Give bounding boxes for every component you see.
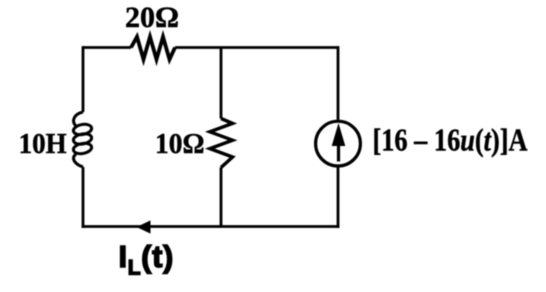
svg-text:[16 – 16u(t)]A: [16 – 16u(t)]A — [373, 122, 528, 158]
svg-text:10H: 10H — [19, 128, 67, 160]
svg-text:10Ω: 10Ω — [155, 128, 205, 160]
svg-text:IL(t): IL(t) — [119, 239, 174, 280]
svg-text:20Ω: 20Ω — [125, 1, 179, 34]
